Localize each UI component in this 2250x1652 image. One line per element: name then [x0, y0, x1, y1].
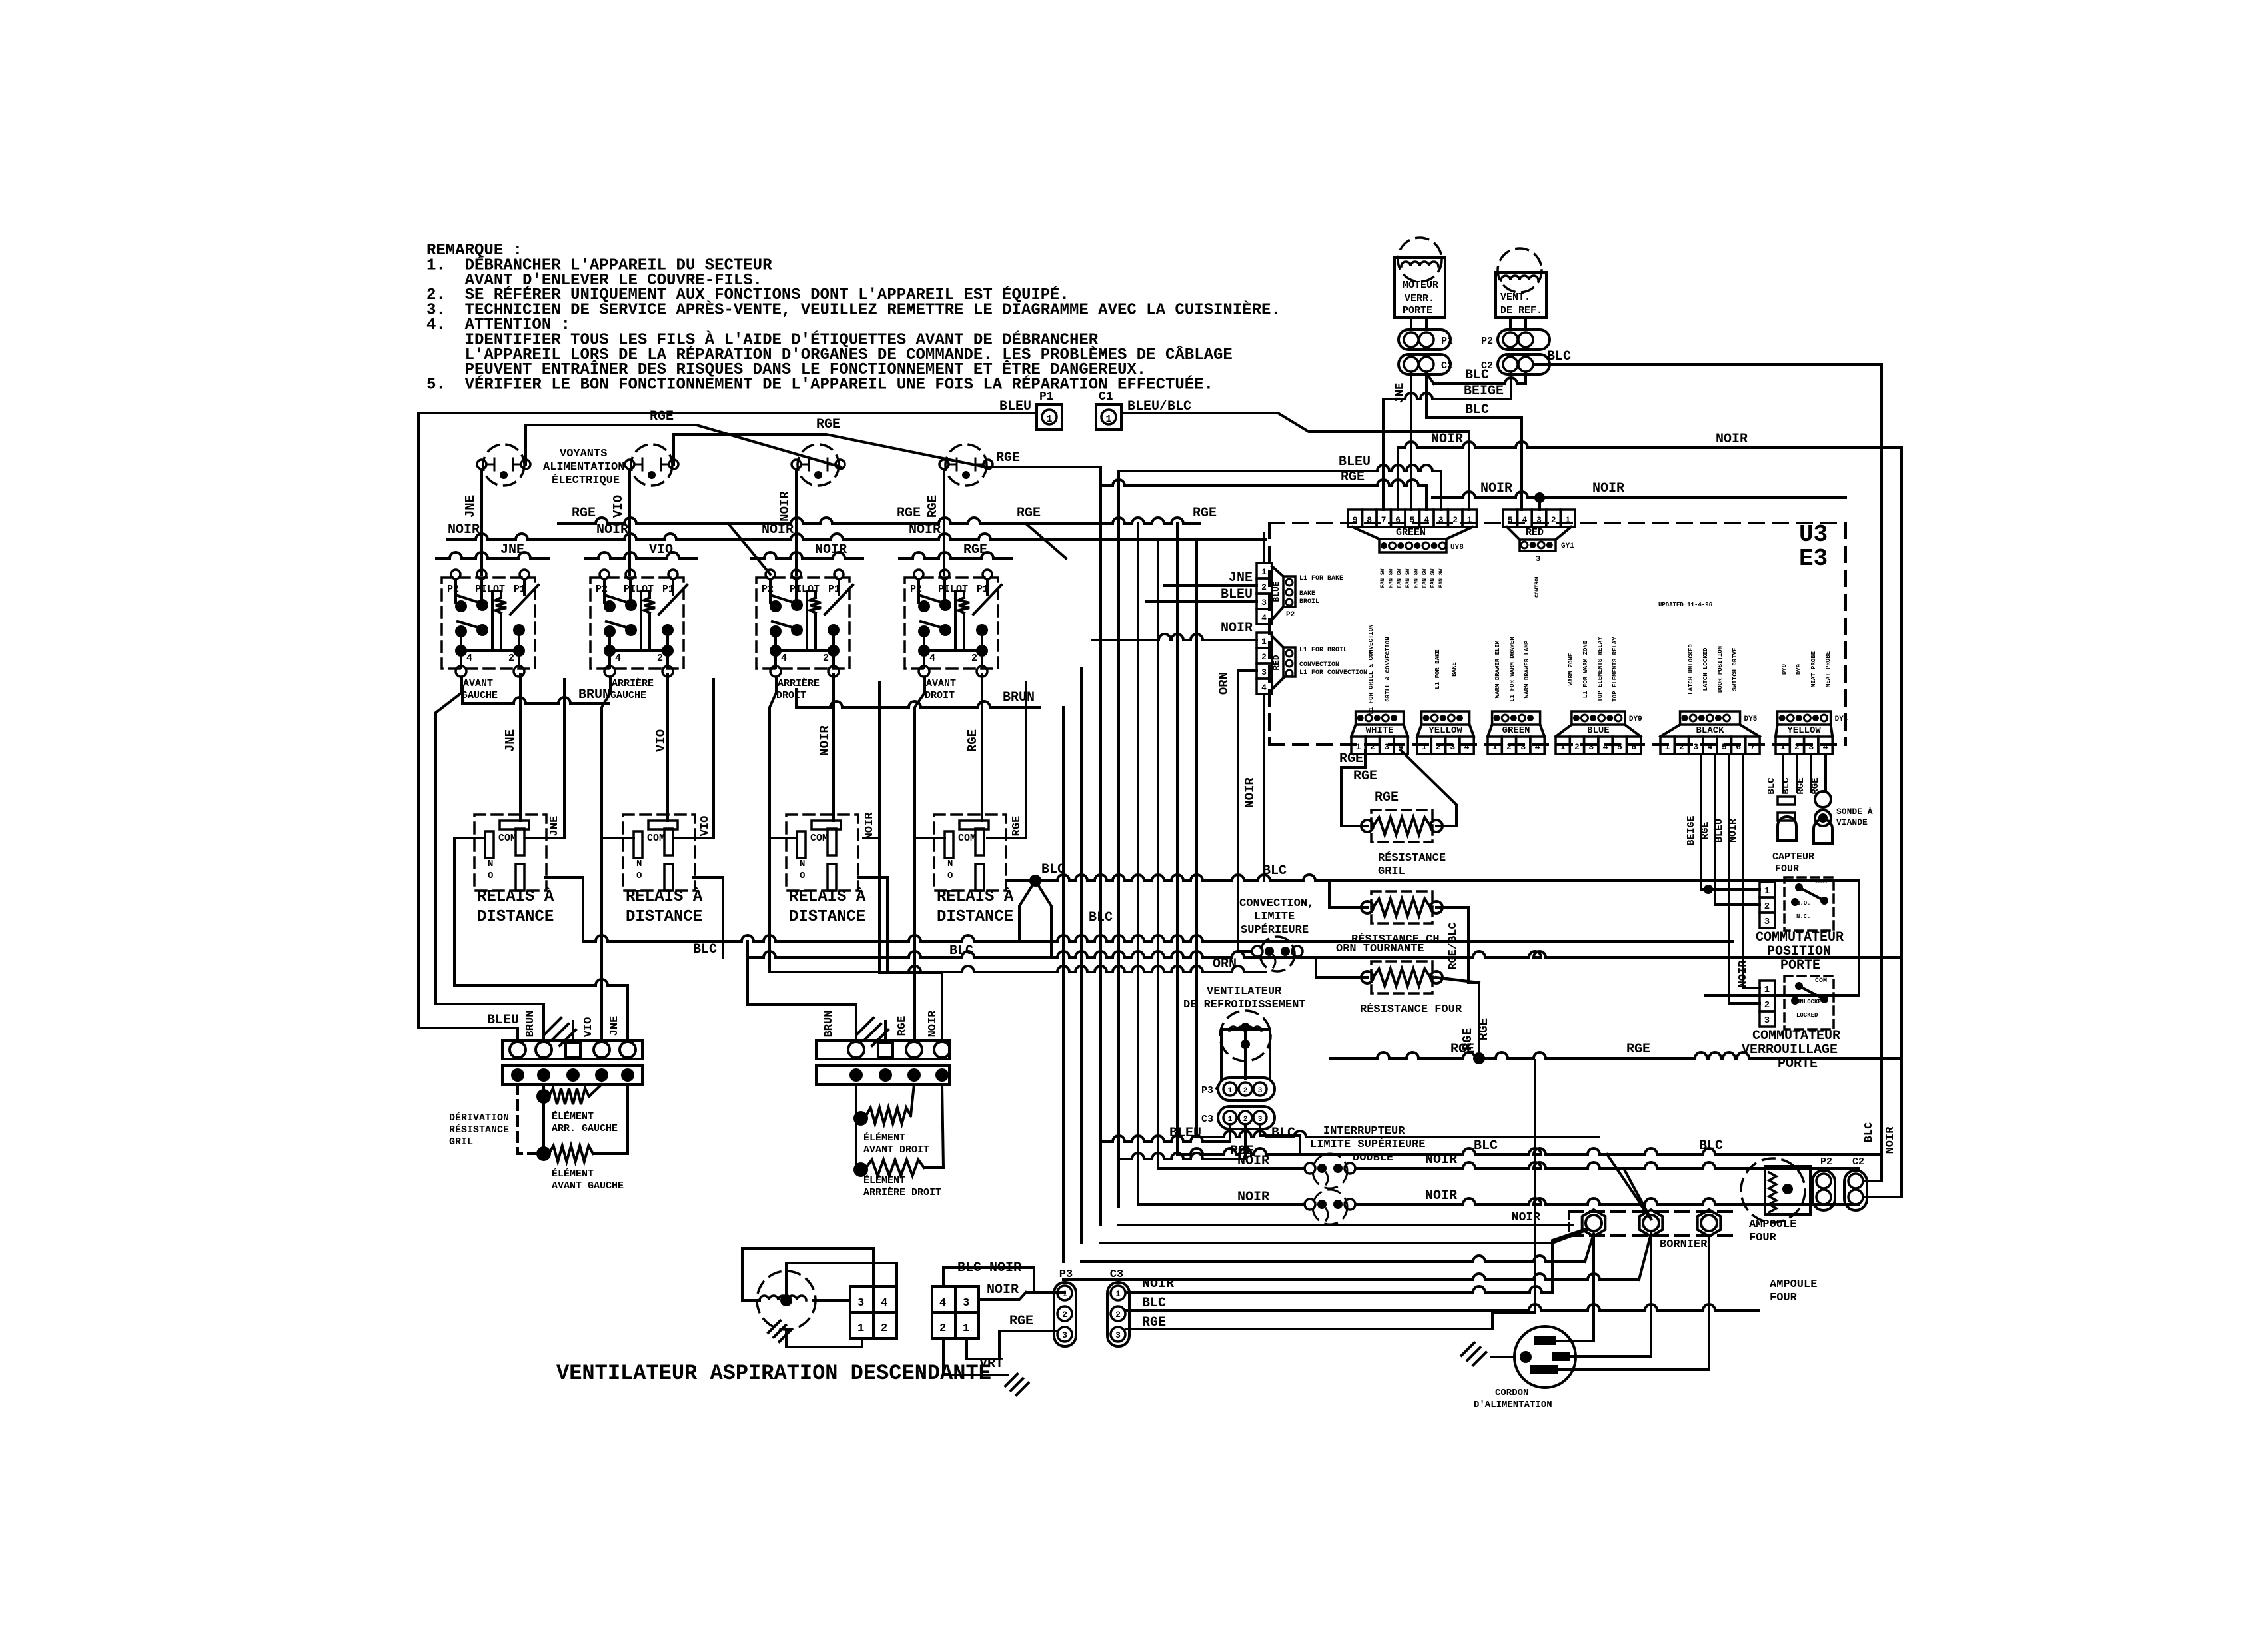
svg-text:JNE: JNE — [500, 542, 524, 558]
svg-text:P2: P2 — [596, 584, 608, 595]
svg-text:5: 5 — [1617, 742, 1622, 752]
svg-text:BLC: BLC — [1465, 402, 1489, 418]
svg-text:GAUCHE: GAUCHE — [610, 690, 646, 701]
svg-text:6: 6 — [1395, 515, 1401, 525]
svg-text:SWITCH DRIVE: SWITCH DRIVE — [1732, 647, 1738, 691]
svg-text:RELAIS À: RELAIS À — [477, 887, 554, 906]
svg-text:BLUE: BLUE — [1271, 581, 1281, 602]
svg-text:N: N — [488, 859, 493, 869]
svg-text:WARM ZONE: WARM ZONE — [1568, 653, 1574, 685]
svg-text:COM: COM — [498, 833, 516, 844]
svg-text:ORN: ORN — [1213, 957, 1237, 972]
svg-text:SONDE À: SONDE À — [1836, 807, 1873, 817]
svg-text:DY9: DY9 — [1796, 664, 1802, 675]
svg-text:NOIR: NOIR — [927, 1010, 939, 1038]
svg-text:VIO: VIO — [699, 816, 712, 837]
svg-text:BLC: BLC — [1271, 1126, 1295, 1141]
svg-text:COM: COM — [810, 833, 828, 844]
svg-text:3: 3 — [1808, 742, 1814, 752]
svg-text:4: 4 — [881, 1297, 887, 1310]
svg-text:3: 3 — [1693, 742, 1698, 752]
svg-text:6: 6 — [1736, 742, 1741, 752]
svg-text:P2: P2 — [1286, 611, 1295, 619]
svg-text:RGE: RGE — [650, 409, 674, 424]
svg-text:1: 1 — [1228, 1087, 1233, 1095]
svg-text:1: 1 — [1467, 515, 1472, 525]
svg-text:3: 3 — [1764, 917, 1770, 927]
svg-text:VENT.: VENT. — [1500, 292, 1530, 303]
svg-text:BRUN: BRUN — [524, 1011, 537, 1038]
svg-text:1: 1 — [1565, 515, 1570, 525]
svg-text:ARR. GAUCHE: ARR. GAUCHE — [552, 1123, 618, 1134]
svg-text:MEAT PROBE: MEAT PROBE — [1810, 651, 1817, 687]
svg-text:RGE: RGE — [996, 450, 1020, 466]
svg-text:2: 2 — [1243, 1116, 1248, 1124]
svg-text:RGE/BLC: RGE/BLC — [1447, 922, 1460, 969]
svg-text:VIO: VIO — [654, 729, 668, 752]
svg-text:BLEU: BLEU — [487, 1013, 519, 1028]
svg-text:JNE: JNE — [608, 1016, 621, 1036]
svg-text:DROIT: DROIT — [776, 690, 806, 701]
svg-text:MEAT PROBE: MEAT PROBE — [1825, 651, 1832, 687]
svg-text:N: N — [636, 859, 642, 869]
svg-text:2: 2 — [881, 1322, 887, 1335]
svg-text:DROIT: DROIT — [925, 690, 955, 701]
svg-text:3: 3 — [1536, 554, 1540, 564]
svg-text:GRIL: GRIL — [449, 1136, 473, 1148]
svg-text:JNE: JNE — [463, 495, 478, 518]
svg-text:COM: COM — [958, 833, 976, 844]
svg-text:RGE: RGE — [1009, 1314, 1033, 1329]
svg-text:TOP ELEMENTS RELAY: TOP ELEMENTS RELAY — [1612, 637, 1618, 702]
svg-text:BLC: BLC — [1863, 1122, 1876, 1143]
svg-text:GREEN: GREEN — [1396, 527, 1426, 538]
svg-text:4: 4 — [1522, 515, 1527, 525]
svg-text:VIANDE: VIANDE — [1836, 817, 1868, 827]
svg-text:2: 2 — [823, 653, 829, 664]
svg-text:BLACK: BLACK — [1696, 725, 1725, 736]
svg-text:FAN SW: FAN SW — [1380, 568, 1386, 588]
svg-text:RGE: RGE — [1193, 506, 1217, 521]
svg-text:C2: C2 — [1852, 1156, 1864, 1168]
svg-text:BLC: BLC — [949, 943, 973, 959]
svg-text:BLC: BLC — [1474, 1138, 1498, 1154]
svg-text:MOTEUR: MOTEUR — [1403, 280, 1438, 291]
svg-text:NOIR: NOIR — [863, 812, 876, 840]
svg-text:VENTILATEUR: VENTILATEUR — [1207, 985, 1282, 998]
svg-text:SUPÉRIEURE: SUPÉRIEURE — [1241, 923, 1309, 937]
svg-text:P1: P1 — [1039, 390, 1054, 404]
svg-text:VERR.: VERR. — [1405, 293, 1434, 304]
svg-text:L1 FOR GRILL & CONVECTION: L1 FOR GRILL & CONVECTION — [1368, 624, 1375, 714]
svg-text:O: O — [636, 871, 642, 881]
svg-text:DOOR POSITION: DOOR POSITION — [1717, 646, 1724, 693]
svg-text:RGE: RGE — [1339, 751, 1363, 767]
svg-text:ÉLECTRIQUE: ÉLECTRIQUE — [552, 474, 620, 487]
svg-text:VERROUILLAGE: VERROUILLAGE — [1742, 1042, 1838, 1058]
svg-text:1: 1 — [1062, 1289, 1067, 1299]
svg-text:BLC NOIR: BLC NOIR — [957, 1260, 1021, 1276]
svg-text:LATCH LOCKED: LATCH LOCKED — [1702, 647, 1709, 691]
svg-text:7: 7 — [1381, 515, 1387, 525]
svg-text:NOIR: NOIR — [778, 491, 792, 522]
svg-text:RELAIS À: RELAIS À — [937, 887, 1014, 906]
svg-text:GRILL & CONVECTION: GRILL & CONVECTION — [1385, 637, 1391, 701]
svg-text:BLC: BLC — [1699, 1138, 1723, 1154]
svg-text:DISTANCE: DISTANCE — [937, 908, 1013, 926]
svg-text:2: 2 — [1370, 742, 1375, 752]
svg-text:CAPTEUR: CAPTEUR — [1772, 851, 1814, 863]
svg-text:RED: RED — [1271, 655, 1281, 671]
svg-text:VOYANTS: VOYANTS — [560, 448, 607, 460]
svg-text:NOIR: NOIR — [1716, 432, 1748, 447]
svg-text:L1 FOR BROIL: L1 FOR BROIL — [1299, 647, 1347, 654]
svg-text:2: 2 — [1551, 515, 1556, 525]
svg-text:AVANT GAUCHE: AVANT GAUCHE — [552, 1180, 624, 1192]
svg-text:RELAIS À: RELAIS À — [789, 887, 866, 906]
svg-text:P2: P2 — [447, 584, 459, 595]
svg-text:PORTE: PORTE — [1403, 305, 1432, 316]
svg-text:1: 1 — [963, 1322, 969, 1335]
svg-text:4: 4 — [781, 653, 787, 664]
svg-text:3: 3 — [1062, 1330, 1067, 1340]
svg-text:DISTANCE: DISTANCE — [626, 908, 702, 926]
svg-text:2: 2 — [1115, 1310, 1121, 1320]
svg-text:4: 4 — [1823, 742, 1828, 752]
svg-text:BLEU: BLEU — [1221, 587, 1253, 602]
svg-text:AMPOULE: AMPOULE — [1770, 1278, 1817, 1291]
svg-text:2: 2 — [1261, 582, 1267, 592]
svg-text:1: 1 — [1764, 985, 1770, 995]
svg-text:RÉSISTANCE FOUR: RÉSISTANCE FOUR — [1360, 1003, 1462, 1016]
svg-text:U3: U3 — [1799, 521, 1828, 548]
svg-text:N: N — [800, 859, 805, 869]
svg-text:2: 2 — [1506, 742, 1512, 752]
svg-text:FAN SW: FAN SW — [1389, 568, 1395, 588]
svg-text:P2: P2 — [1820, 1156, 1832, 1168]
svg-text:8: 8 — [1367, 515, 1372, 525]
svg-text:RÉSISTANCE: RÉSISTANCE — [1378, 851, 1446, 865]
svg-text:COMMUTATEUR: COMMUTATEUR — [1752, 1029, 1840, 1044]
svg-text:1: 1 — [1261, 567, 1267, 577]
svg-text:1: 1 — [1046, 414, 1052, 425]
svg-text:ÉLÉMENT: ÉLÉMENT — [552, 1110, 594, 1122]
svg-text:GRIL: GRIL — [1378, 865, 1405, 878]
svg-text:BLUE: BLUE — [1587, 725, 1610, 736]
svg-text:C2: C2 — [1441, 360, 1453, 372]
svg-text:DY9: DY9 — [1629, 715, 1642, 723]
svg-text:O: O — [488, 871, 493, 881]
svg-text:4: 4 — [1261, 683, 1267, 693]
svg-text:3: 3 — [1115, 1330, 1121, 1340]
svg-text:5. VÉRIFIER LE BON FONCTIONNE: 5. VÉRIFIER LE BON FONCTIONNEMENT DE L'A… — [426, 376, 1213, 394]
svg-text:YELLOW: YELLOW — [1787, 725, 1821, 736]
svg-text:2: 2 — [1062, 1310, 1067, 1320]
svg-text:NOIR: NOIR — [987, 1282, 1019, 1298]
svg-text:1: 1 — [1764, 886, 1770, 897]
svg-text:7: 7 — [1750, 742, 1756, 752]
svg-text:P3: P3 — [1201, 1085, 1213, 1096]
svg-text:1: 1 — [1105, 414, 1111, 425]
svg-text:UNLOCKED: UNLOCKED — [1796, 999, 1826, 1005]
svg-text:FOUR: FOUR — [1775, 863, 1799, 875]
svg-text:ALIMENTATION: ALIMENTATION — [543, 461, 624, 474]
svg-text:BLC: BLC — [1547, 349, 1571, 364]
svg-text:FAN SW: FAN SW — [1438, 568, 1444, 588]
svg-text:BROIL: BROIL — [1299, 598, 1319, 606]
svg-text:PORTE: PORTE — [1778, 1056, 1818, 1072]
svg-text:NOIR: NOIR — [1592, 481, 1624, 496]
svg-text:JNE: JNE — [1229, 570, 1253, 586]
svg-text:3: 3 — [1588, 742, 1594, 752]
svg-text:4: 4 — [1603, 742, 1608, 752]
svg-text:BRUN: BRUN — [823, 1011, 836, 1038]
svg-text:3: 3 — [1520, 742, 1526, 752]
svg-text:3: 3 — [1536, 515, 1542, 525]
svg-text:DY4: DY4 — [1835, 715, 1848, 723]
svg-text:N.O.: N.O. — [1796, 900, 1811, 907]
svg-text:NOIR: NOIR — [1728, 819, 1739, 843]
svg-text:2: 2 — [1452, 515, 1458, 525]
svg-text:C3: C3 — [1201, 1114, 1213, 1125]
svg-text:O: O — [800, 871, 805, 881]
svg-text:AVANT: AVANT — [463, 678, 493, 689]
svg-text:2: 2 — [939, 1322, 946, 1335]
svg-text:RGE: RGE — [965, 729, 980, 752]
svg-text:RGE: RGE — [816, 417, 840, 432]
svg-text:9: 9 — [1353, 515, 1358, 525]
svg-text:YELLOW: YELLOW — [1428, 725, 1462, 736]
svg-text:ÉLÉMENT: ÉLÉMENT — [863, 1174, 905, 1186]
svg-text:COM: COM — [1815, 879, 1827, 886]
svg-text:RGE: RGE — [572, 506, 596, 521]
svg-text:WHITE: WHITE — [1366, 725, 1394, 736]
svg-text:3: 3 — [1258, 1116, 1263, 1124]
svg-text:1: 1 — [1422, 742, 1427, 752]
svg-text:P2: P2 — [910, 584, 922, 595]
svg-text:VIO: VIO — [649, 542, 673, 558]
svg-text:DE REF.: DE REF. — [1500, 305, 1542, 316]
svg-text:1: 1 — [1492, 742, 1498, 752]
svg-text:BEIGE: BEIGE — [1464, 384, 1504, 399]
svg-text:6: 6 — [1631, 742, 1636, 752]
svg-text:WARM DRAWER ELEM: WARM DRAWER ELEM — [1494, 641, 1501, 698]
svg-text:L1 FOR WARM ZONE: L1 FOR WARM ZONE — [1582, 640, 1589, 698]
svg-text:RGE: RGE — [1626, 1042, 1650, 1057]
svg-text:4: 4 — [466, 653, 472, 664]
svg-text:D'ALIMENTATION: D'ALIMENTATION — [1474, 1400, 1552, 1410]
svg-text:GY1: GY1 — [1561, 542, 1574, 550]
svg-text:VIO: VIO — [611, 495, 626, 518]
svg-text:DY5: DY5 — [1744, 715, 1758, 723]
svg-text:2: 2 — [1574, 742, 1580, 752]
svg-text:1: 1 — [1261, 637, 1267, 647]
svg-text:L1 FOR CONVECTION: L1 FOR CONVECTION — [1299, 669, 1367, 677]
svg-text:CONVECTION: CONVECTION — [1299, 661, 1339, 669]
svg-text:DISTANCE: DISTANCE — [477, 908, 554, 926]
svg-text:LATCH UNLOCKED: LATCH UNLOCKED — [1688, 644, 1694, 695]
svg-text:P2: P2 — [1481, 336, 1493, 347]
svg-text:NOIR: NOIR — [1243, 777, 1257, 808]
svg-text:L1 FOR WARM DRAWER: L1 FOR WARM DRAWER — [1509, 637, 1516, 702]
svg-text:RÉSISTANCE: RÉSISTANCE — [449, 1124, 509, 1136]
svg-text:BRUN: BRUN — [1003, 690, 1035, 705]
svg-text:P2: P2 — [762, 584, 774, 595]
svg-text:ARRIÈRE DROIT: ARRIÈRE DROIT — [863, 1186, 941, 1198]
svg-text:FAN SW: FAN SW — [1422, 568, 1428, 588]
svg-text:L1 FOR BAKE: L1 FOR BAKE — [1299, 575, 1343, 582]
svg-text:VIO: VIO — [582, 1017, 595, 1038]
svg-text:LIMITE SUPÉRIEURE: LIMITE SUPÉRIEURE — [1310, 1138, 1425, 1151]
svg-text:4: 4 — [939, 1297, 946, 1310]
svg-text:BAKE: BAKE — [1299, 590, 1315, 598]
svg-text:3: 3 — [1438, 515, 1444, 525]
svg-text:ARRIÈRE: ARRIÈRE — [778, 677, 820, 689]
svg-text:2: 2 — [1679, 742, 1684, 752]
svg-text:N: N — [947, 859, 953, 869]
svg-text:4: 4 — [929, 653, 935, 664]
svg-text:BLC: BLC — [1142, 1296, 1166, 1311]
svg-text:DISTANCE: DISTANCE — [789, 908, 865, 926]
svg-text:1: 1 — [857, 1322, 864, 1335]
svg-text:NOIR: NOIR — [1884, 1126, 1897, 1154]
svg-text:JNE: JNE — [503, 729, 518, 752]
svg-text:RGE: RGE — [1341, 470, 1365, 485]
svg-text:COM: COM — [1815, 977, 1827, 985]
svg-text:L1 FOR BAKE: L1 FOR BAKE — [1434, 649, 1441, 689]
svg-text:FAN SW: FAN SW — [1430, 568, 1436, 588]
svg-text:1: 1 — [1115, 1289, 1121, 1299]
svg-text:NOIR: NOIR — [1480, 481, 1512, 496]
svg-text:N.C.: N.C. — [1796, 913, 1811, 920]
svg-text:POSITION: POSITION — [1767, 944, 1831, 959]
svg-text:1: 1 — [1560, 742, 1566, 752]
svg-text:NOIR: NOIR — [1431, 432, 1463, 447]
svg-text:2: 2 — [1764, 1000, 1770, 1011]
svg-text:NOIR: NOIR — [448, 522, 480, 538]
svg-text:4: 4 — [1424, 515, 1429, 525]
svg-text:BORNIER: BORNIER — [1660, 1238, 1708, 1251]
svg-text:4: 4 — [1535, 742, 1540, 752]
svg-text:AMPOULE: AMPOULE — [1749, 1218, 1796, 1231]
svg-text:GREEN: GREEN — [1502, 725, 1530, 736]
svg-text:1: 1 — [1356, 742, 1361, 752]
svg-text:4: 4 — [1464, 742, 1470, 752]
svg-text:C1: C1 — [1099, 390, 1113, 404]
svg-text:UPDATED 11-4-96: UPDATED 11-4-96 — [1658, 602, 1712, 608]
svg-text:WARM DRAWER LAMP: WARM DRAWER LAMP — [1524, 640, 1530, 698]
svg-text:BLEU: BLEU — [1714, 819, 1725, 843]
svg-text:4: 4 — [615, 653, 621, 664]
svg-text:BAKE: BAKE — [1451, 662, 1458, 677]
svg-text:RGE: RGE — [1796, 777, 1806, 794]
svg-text:DE REFROIDISSEMENT: DE REFROIDISSEMENT — [1183, 999, 1306, 1011]
svg-text:TOP ELEMENTS RELAY: TOP ELEMENTS RELAY — [1597, 637, 1604, 702]
svg-text:ORN TOURNANTE: ORN TOURNANTE — [1336, 943, 1424, 955]
svg-text:RGE: RGE — [1700, 821, 1711, 839]
svg-text:2: 2 — [508, 653, 514, 664]
svg-text:COMMUTATEUR: COMMUTATEUR — [1756, 930, 1844, 945]
svg-text:E3: E3 — [1799, 545, 1828, 572]
svg-text:NOIR: NOIR — [818, 725, 832, 756]
svg-text:RGE: RGE — [1011, 816, 1023, 837]
svg-text:3: 3 — [857, 1297, 864, 1310]
svg-text:DÉRIVATION: DÉRIVATION — [449, 1112, 509, 1124]
svg-text:BLC: BLC — [1263, 863, 1287, 879]
svg-text:LIMITE: LIMITE — [1254, 911, 1295, 923]
svg-text:BLEU: BLEU — [1339, 454, 1371, 470]
svg-text:BEIGE: BEIGE — [1686, 815, 1697, 845]
svg-text:RGE: RGE — [1353, 769, 1377, 784]
svg-text:NOIR: NOIR — [1737, 960, 1750, 988]
svg-text:O: O — [947, 871, 953, 881]
svg-text:5: 5 — [1508, 515, 1513, 525]
svg-text:PORTE: PORTE — [1780, 958, 1820, 973]
svg-text:3: 3 — [1261, 667, 1267, 677]
svg-text:ARRIÈRE: ARRIÈRE — [612, 677, 654, 689]
svg-text:2: 2 — [971, 653, 977, 664]
svg-text:LOCKED: LOCKED — [1796, 1012, 1818, 1019]
svg-text:RGE: RGE — [925, 495, 940, 518]
svg-text:1: 1 — [1665, 742, 1670, 752]
svg-text:FOUR: FOUR — [1749, 1232, 1777, 1244]
svg-text:CORDON: CORDON — [1495, 1388, 1528, 1398]
svg-text:NOIR: NOIR — [1237, 1190, 1269, 1205]
svg-text:1: 1 — [1228, 1116, 1233, 1124]
svg-text:RGE: RGE — [1017, 506, 1041, 521]
svg-text:2: 2 — [657, 653, 663, 664]
svg-text:RED: RED — [1526, 527, 1544, 538]
svg-text:3: 3 — [963, 1297, 969, 1310]
svg-text:CONTROL: CONTROL — [1534, 575, 1540, 598]
svg-text:VENTILATEUR ASPIRATION DESCEND: VENTILATEUR ASPIRATION DESCENDANTE — [556, 1361, 991, 1386]
svg-text:NOIR: NOIR — [1221, 621, 1253, 636]
svg-text:5: 5 — [1410, 515, 1415, 525]
svg-text:AVANT: AVANT — [926, 678, 956, 689]
svg-text:3: 3 — [1764, 1015, 1770, 1026]
svg-text:RGE: RGE — [963, 542, 987, 558]
svg-text:FOUR: FOUR — [1770, 1292, 1798, 1304]
svg-text:4: 4 — [1261, 613, 1267, 623]
svg-text:BLC: BLC — [1781, 777, 1792, 795]
svg-text:JNE: JNE — [548, 816, 561, 837]
svg-text:DY9: DY9 — [1781, 664, 1788, 675]
svg-text:COM: COM — [647, 833, 665, 844]
svg-text:GAUCHE: GAUCHE — [462, 690, 498, 701]
svg-text:RELAIS À: RELAIS À — [626, 887, 703, 906]
svg-text:RGE: RGE — [1460, 1028, 1475, 1050]
svg-text:RGE: RGE — [896, 1016, 909, 1036]
svg-text:AVANT DROIT: AVANT DROIT — [863, 1144, 929, 1156]
svg-text:2: 2 — [1261, 652, 1267, 662]
svg-text:3: 3 — [1258, 1087, 1263, 1095]
svg-text:RGE: RGE — [1375, 790, 1399, 805]
svg-text:FAN SW: FAN SW — [1397, 568, 1403, 588]
svg-text:BLC: BLC — [693, 942, 717, 957]
svg-text:FAN SW: FAN SW — [1405, 568, 1411, 588]
svg-text:NOIR: NOIR — [1425, 1188, 1457, 1204]
svg-text:UY8: UY8 — [1450, 544, 1464, 552]
svg-text:4: 4 — [1708, 742, 1713, 752]
svg-text:2: 2 — [1794, 742, 1800, 752]
svg-text:ÉLÉMENT: ÉLÉMENT — [552, 1168, 594, 1180]
svg-text:2: 2 — [1243, 1087, 1248, 1095]
svg-text:2: 2 — [1764, 901, 1770, 912]
svg-text:5: 5 — [1722, 742, 1727, 752]
svg-text:RGE: RGE — [897, 506, 921, 521]
svg-text:CONVECTION,: CONVECTION, — [1239, 897, 1314, 910]
svg-text:BLC: BLC — [1465, 368, 1489, 383]
